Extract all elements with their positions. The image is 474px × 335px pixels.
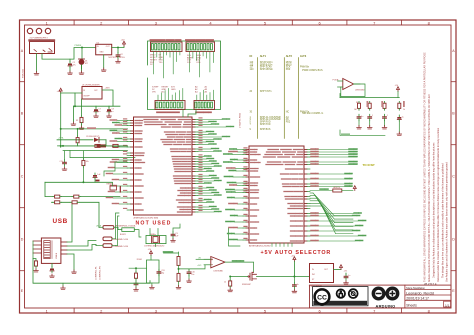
SV1 internal pin name text: [251, 150, 303, 242]
ground bank 1: [357, 121, 362, 129]
svg-text:+5V AUTO SELECTOR: +5V AUTO SELECTOR: [261, 250, 332, 256]
svg-text:R10M: R10M: [137, 259, 142, 261]
connector JP5 header top-left: [151, 42, 183, 52]
wire fan above JP4: [197, 90, 214, 100]
wire comparator input bus: [340, 97, 399, 99]
wire bus U4 left nets: [106, 119, 127, 208]
svg-text:FIDUCIA: FIDUCIA: [21, 69, 24, 78]
resistor R7: [398, 101, 405, 110]
junction reg out: [117, 47, 119, 49]
ground usb: [72, 270, 77, 273]
wire 5VKB bottom bus: [340, 130, 385, 135]
junction R8: [135, 267, 137, 269]
resistor R1 10k: [76, 116, 83, 125]
svg-text:1: 1: [387, 115, 388, 117]
capacitor C20 on reset row: [96, 180, 100, 182]
ground D1: [79, 65, 84, 74]
resistor R9 divider top: [177, 253, 180, 273]
Arduino infinity logo: [373, 288, 397, 308]
label under JP3: [157, 111, 165, 113]
fuse F1 MF-MSMF050-2 500mA: [96, 224, 136, 229]
wire usb GND pin: [67, 254, 74, 270]
svg-text:USBA: USBA: [96, 224, 102, 227]
diode D1 M7: [79, 48, 88, 70]
varistor Z2 CG0603MLC-05E: [96, 244, 129, 248]
svg-text:SPIP PXD: SPIP PXD: [260, 124, 271, 126]
svg-text:1k: 1k: [224, 282, 226, 284]
wire divider node to opamp: [179, 265, 206, 269]
wire fan below JP5: [154, 52, 180, 79]
wire usb D- D+: [67, 241, 96, 251]
svg-text:C19: C19: [60, 161, 63, 163]
resistor R12: [111, 144, 120, 147]
drawing frame inner border: [25, 25, 452, 308]
connector JP1 header top-right: [186, 42, 215, 52]
resistor R8 10M: [135, 259, 143, 280]
capacitor C9 pol 1uF: [93, 173, 101, 182]
svg-text:26/01/19 14:17: 26/01/19 14:17: [406, 297, 429, 301]
wire crystal gnd stub: [155, 244, 157, 247]
svg-text:THIS HARDWARE ALL OTHER WARRAN: THIS HARDWARE ALL OTHER WARRANTIES EXPRE…: [424, 52, 427, 282]
SV1 left pins: [243, 150, 249, 241]
svg-text:POUR: POUR: [333, 80, 339, 82]
wire PWRIN net: [42, 48, 96, 60]
svg-text:16MHz: 16MHz: [150, 234, 156, 236]
wire U5 in down to bus: [73, 93, 81, 120]
ground U2: [101, 68, 106, 71]
frame column ticks and numbers: [46, 20, 431, 313]
junction reset: [82, 181, 84, 183]
svg-text:LMV358ID: LMV358ID: [214, 270, 224, 272]
svg-text:47u: 47u: [73, 65, 76, 67]
svg-text:U5 LP2985-33DBVR: U5 LP2985-33DBVR: [82, 84, 100, 86]
frame row ticks and letters: [20, 49, 457, 293]
svg-text:The design files are free you: The design files are free you can redist…: [442, 163, 445, 278]
wire usb VBUS up: [67, 202, 72, 242]
svg-text:Released under the Creative Co: Released under the Creative Commons Attr…: [437, 127, 440, 282]
wire usbvcc row with resistors: [52, 202, 100, 227]
svg-text:RESET: RESET: [107, 184, 114, 186]
svg-text:28 2717 4: 28 2717 4: [424, 282, 437, 286]
wire nets right of SV1 mid: [310, 174, 352, 187]
ground bank 2: [367, 121, 372, 129]
mounting hole H3: [45, 28, 50, 33]
wire bus U4 lower right nets: [198, 155, 221, 212]
capacitor C19: [60, 151, 67, 170]
svg-text:ATMEGA32U4-XUMU: ATMEGA32U4-XUMU: [249, 245, 271, 248]
op-amp U1A LMV358ID: [333, 79, 366, 92]
net labels below JP1: [187, 54, 202, 64]
svg-text:+5V: +5V: [121, 40, 125, 42]
wire +5V to R7: [397, 92, 399, 98]
resistor RN2B: [70, 201, 79, 204]
table row entries: [250, 62, 310, 131]
capacitor usb shell pol: [50, 263, 54, 272]
svg-text:10n: 10n: [191, 274, 194, 276]
wire +5V to U5 input: [61, 92, 82, 94]
ground usb shell cap: [50, 274, 55, 277]
wire XTAL pins up: [150, 229, 158, 236]
svg-text:FDN340P: FDN340P: [242, 284, 251, 286]
svg-text:ATMEGA32U4-XUMU (NM): ATMEGA32U4-XUMU (NM): [134, 216, 159, 219]
svg-text:NC: NC: [286, 111, 290, 113]
svg-text:+5V3: +5V3: [197, 265, 201, 267]
wire +5V rail vertical left: [60, 93, 62, 147]
title block outline: [310, 285, 452, 308]
svg-text:1u: 1u: [297, 284, 299, 286]
+5V arrow LED net: [353, 186, 356, 191]
svg-text:R1: R1: [76, 120, 78, 122]
wire +5V row 145: [58, 145, 128, 147]
svg-text:PD0: PD0: [286, 69, 291, 71]
svg-text:USB: USB: [53, 218, 68, 225]
svg-text:CSTEMC16M0V53-R0: CSTEMC16M0V53-R0: [144, 245, 165, 247]
svg-text:1u: 1u: [361, 116, 363, 118]
mounting hole H2: [36, 28, 41, 33]
svg-text:CC: CC: [317, 294, 327, 301]
svg-text:ALT2: ALT2: [286, 54, 293, 58]
ground bottom left: [61, 283, 66, 289]
wire R2 net: [77, 129, 79, 146]
svg-text:USB-B: USB-B: [56, 252, 58, 259]
wire bus row under U5: [73, 105, 120, 107]
resistor R5: [367, 101, 372, 110]
label under JP4: [196, 111, 203, 113]
+5V arrow U5: [59, 88, 62, 93]
svg-text:SPIP BUS: SPIP BUS: [260, 129, 271, 131]
wire lower nets right of SV1: [310, 213, 366, 241]
svg-text:IO: IO: [250, 54, 253, 58]
svg-text:SPPT INTn: SPPT INTn: [260, 91, 272, 93]
svg-text:1: 1: [372, 115, 373, 117]
resistor R6: [381, 101, 386, 110]
capacitor C2: [116, 48, 123, 59]
capacitor C16 10n: [187, 269, 195, 283]
svg-text:Leonardo_Rev3d: Leonardo_Rev3d: [406, 292, 434, 296]
wire row 150.5: [63, 150, 128, 152]
wire data nets up to MCU: [96, 213, 119, 246]
svg-text:NOT USED: NOT USED: [136, 221, 172, 227]
svg-text:CG0603MLC-05E: CG0603MLC-05E: [113, 246, 129, 248]
junction R2: [77, 128, 79, 130]
label 5VKB: [341, 133, 350, 135]
svg-text:C: C: [21, 175, 24, 179]
wire diagonal fan from SV1: [310, 193, 353, 234]
svg-text:ON/OFF: ON/OFF: [83, 96, 89, 98]
svg-text:OUT: OUT: [94, 90, 98, 92]
resistor R4 1M: [356, 101, 361, 110]
svg-text:+5V/A: +5V/A: [58, 137, 64, 140]
+5V arrow selector: [291, 256, 296, 262]
capacitor C7 1u pol: [94, 107, 101, 113]
svg-text:PD2: PD2: [286, 122, 291, 124]
connector JP3 header bottom-left: [155, 101, 185, 110]
svg-text:NM Joint COMPL In: NM Joint COMPL In: [302, 112, 324, 115]
table IO ALT rules: [258, 58, 299, 139]
wire bottom loop long: [33, 259, 150, 284]
resistor R14 shield: [34, 259, 39, 272]
svg-text:Mara Maddalon: Mara Maddalon: [406, 286, 425, 290]
svg-text:GND: GND: [100, 52, 105, 54]
svg-text:IN2: IN2: [312, 274, 315, 276]
svg-text:NCP1117ST50T3G: NCP1117ST50T3G: [109, 57, 126, 59]
svg-text:D: D: [452, 238, 455, 242]
op-amp U1B LMV358ID: [197, 257, 225, 273]
wire ICSP bus right of SV1: [310, 149, 357, 165]
resistor R11: [93, 144, 102, 147]
wire VBUS row to MCU: [61, 145, 128, 147]
wire reset row: [45, 181, 112, 183]
resistor R13 10k: [82, 159, 89, 168]
junction VBUS: [60, 145, 62, 147]
net labels above JP4: [195, 86, 208, 94]
microcontroller U4 ATMEGA32U4 box: [134, 117, 193, 215]
resistor RN2A: [53, 201, 62, 204]
svg-text:1/1: 1/1: [445, 303, 450, 307]
svg-text:1u: 1u: [98, 111, 100, 113]
svg-text:+3V3: +3V3: [105, 88, 111, 90]
title block table: [405, 285, 451, 308]
net label UVCC: [87, 127, 96, 129]
svg-text:CONUUPLL-PK: CONUUPLL-PK: [96, 266, 98, 280]
wire fuse row: [118, 227, 141, 237]
ground R1: [79, 124, 84, 129]
ferrite L2 on VBUS row: [97, 140, 107, 148]
wire tosc feed: [164, 252, 179, 253]
svg-text:PWRIN: PWRIN: [75, 45, 82, 47]
wire bus U4 upper right nets: [198, 118, 234, 152]
ground jack: [34, 72, 39, 75]
wire ucap to MCU: [173, 224, 180, 232]
svg-text:C2: C2: [120, 54, 122, 56]
IC U3 TPS2110APWR: [309, 264, 334, 288]
wire row 196: [45, 182, 120, 196]
junction selector: [293, 276, 295, 278]
svg-text:1u: 1u: [111, 111, 113, 113]
+5V arrow comparator: [395, 85, 400, 92]
regulator U5 LP2985-33DBVR: [82, 84, 102, 99]
U4 left pins: [127, 121, 134, 211]
svg-text:SPIP MOSIn: SPIP MOSIn: [260, 69, 274, 71]
+5V arrow power: [123, 41, 126, 46]
svg-text:C: C: [452, 175, 455, 179]
ground C1: [68, 68, 73, 75]
wire fan below JP1: [190, 52, 214, 78]
wire op-amp feedback: [341, 84, 365, 97]
capacitor C3 1uF ucap: [171, 232, 180, 242]
svg-text:NC: NC: [162, 92, 166, 94]
connector JP1 label: [186, 39, 194, 41]
wire jack ground pin: [36, 54, 38, 72]
svg-text:R4: R4: [356, 102, 358, 104]
svg-text:MF-MSMF050-2 500mA: MF-MSMF050-2 500mA: [115, 225, 136, 228]
wire row 157.6: [70, 151, 135, 158]
resistor R9b divider bottom: [176, 273, 181, 288]
reset button S1: [107, 182, 121, 192]
wire +5V from regulator output: [112, 46, 124, 48]
usb shield pins: [33, 241, 41, 259]
junction U5 bus: [74, 105, 76, 107]
svg-text:GND: GND: [171, 89, 176, 91]
svg-text:LMV358ID: LMV358ID: [355, 90, 365, 92]
svg-text:Designed in Italy by Arduino i: Designed in Italy by Arduino in collabor…: [433, 142, 436, 278]
svg-text:1u: 1u: [348, 275, 350, 277]
wire hwb loop: [147, 260, 160, 283]
SV1 right pins: [304, 150, 310, 242]
license disclaimer vertical text: [424, 52, 449, 282]
ground C8: [107, 114, 112, 117]
wire notch to MCU: [104, 162, 127, 176]
diode D2 CD1206-S01575: [57, 136, 106, 142]
junction opamp row: [229, 276, 231, 278]
capacitor C12: [383, 114, 388, 120]
svg-text:22p: 22p: [161, 273, 164, 275]
svg-text:PWM COMPL BUS: PWM COMPL BUS: [302, 69, 323, 72]
svg-text:CONUUPLL-PN: CONUUPLL-PN: [100, 266, 102, 280]
wire opamp out to gate: [225, 262, 254, 272]
svg-text:ARDUINO: ARDUINO: [376, 304, 396, 309]
+5V arrow hwb: [148, 249, 153, 256]
svg-text:M7: M7: [85, 63, 88, 65]
wire opamp plus input: [196, 258, 211, 260]
power jack X1 POWERSUPPLY_DC21MMX: [30, 38, 55, 54]
svg-text:D: D: [21, 238, 24, 242]
wire selector +5V drop: [293, 262, 295, 277]
second MCU section SV1 box: [249, 146, 304, 243]
resistor RN1A: [53, 195, 62, 198]
ground C7: [94, 114, 99, 117]
junction UVCC: [60, 128, 62, 130]
wire U2 GND tab: [103, 55, 105, 68]
wire source drain row: [230, 276, 309, 278]
net labels above JP3: [152, 87, 176, 94]
junction divider: [178, 268, 180, 270]
ground U5 bus: [71, 120, 76, 125]
capacitor C1 47u polarized: [68, 59, 76, 67]
ground bank 3: [382, 121, 387, 129]
capacitor C14 below R8: [134, 281, 139, 291]
wire bus between U4 and SV1: [224, 148, 247, 240]
connector JP4 header bottom-right: [194, 101, 215, 110]
svg-text:BLM21: BLM21: [120, 234, 126, 236]
varistor Z1 CG0603MLC-05E: [103, 237, 129, 241]
ground hwb loop: [150, 283, 155, 289]
resistor R10 1k below junction: [224, 277, 233, 292]
inductor L1 BLM21: [120, 228, 134, 236]
svg-text:CG0603MLC-05E: CG0603MLC-05E: [113, 239, 129, 241]
capacitor C8 1u pol: [107, 107, 114, 113]
svg-text:CD1206-S01575: CD1206-S01575: [86, 136, 99, 138]
U4 internal pin name text: [135, 120, 191, 213]
svg-text:Sheets: Sheets: [406, 303, 417, 307]
wire net left of SV1 bottom: [229, 228, 241, 246]
CC license logo plate: [313, 287, 369, 306]
wire top group outline loop: [148, 41, 221, 110]
table headers IO ALT1 ALT2 ALT3: [250, 54, 307, 58]
wire cap feeds: [96, 106, 109, 107]
svg-text:10k: 10k: [86, 161, 89, 163]
+5V arrow U3 out: [340, 265, 348, 273]
svg-text:TO ICSP: TO ICSP: [363, 163, 375, 167]
SV1 bottom pin stubs: [272, 243, 292, 247]
capacitor C17: [292, 277, 299, 293]
wire fan above JP3: [158, 88, 183, 100]
connector JP5 label: [151, 39, 165, 41]
resistor R3 with LED net: [310, 187, 353, 192]
wire R8 to loop: [129, 268, 147, 271]
crystal Y1 16MHz: [144, 234, 166, 248]
capacitor C11: [368, 114, 373, 120]
capacitor C13 pol: [397, 109, 405, 121]
capacitor C10: [354, 109, 363, 121]
svg-text:ALT1: ALT1: [260, 54, 267, 58]
ground bank 4: [397, 121, 402, 135]
svg-text:ALT3: ALT3: [300, 54, 307, 58]
wire U3 out: [334, 269, 342, 271]
svg-text:LEDR 1k: LEDR 1k: [333, 187, 340, 189]
junction VBUS left: [62, 145, 64, 147]
capacitor C18: [344, 273, 351, 284]
svg-text:VIN: VIN: [152, 92, 156, 94]
svg-text:1u: 1u: [402, 117, 404, 119]
wire hwb feed: [150, 256, 152, 261]
svg-text:1k: 1k: [403, 109, 405, 111]
capacitor C15 on loop: [157, 269, 164, 275]
net labels below JP5: [150, 55, 164, 67]
resistor RN1B: [72, 195, 81, 198]
label TOSC: [164, 251, 169, 253]
U4 right pins: [192, 120, 198, 213]
ground C2: [116, 60, 121, 63]
junction PWRIN: [81, 47, 83, 49]
wire R13 net: [82, 151, 84, 182]
wire U4 top feeds: [183, 110, 196, 118]
voltage regulator U2 NCP1117ST50T3G: [96, 42, 125, 58]
transistor T1 FDN340P: [242, 272, 257, 286]
mounting hole H1: [27, 28, 32, 33]
wire bus drop from opamp area: [339, 94, 341, 98]
resistor R2 vertical: [76, 136, 79, 145]
usb connector X2 USB-B: [41, 238, 67, 263]
label 5VUSB net: [233, 260, 236, 262]
wire U5 output 3V3: [102, 90, 113, 106]
svg-text:Arduino Boards ARE PROVIDED AS: Arduino Boards ARE PROVIDED AS IS AND WI…: [428, 94, 431, 282]
wire UVCC row to MCU: [61, 128, 128, 130]
svg-text:L SDA/TX-PD01: L SDA/TX-PD01: [239, 112, 242, 128]
svg-text:Use Arduino logos and all trad: Use Arduino logos and all trademarks of …: [446, 162, 449, 282]
